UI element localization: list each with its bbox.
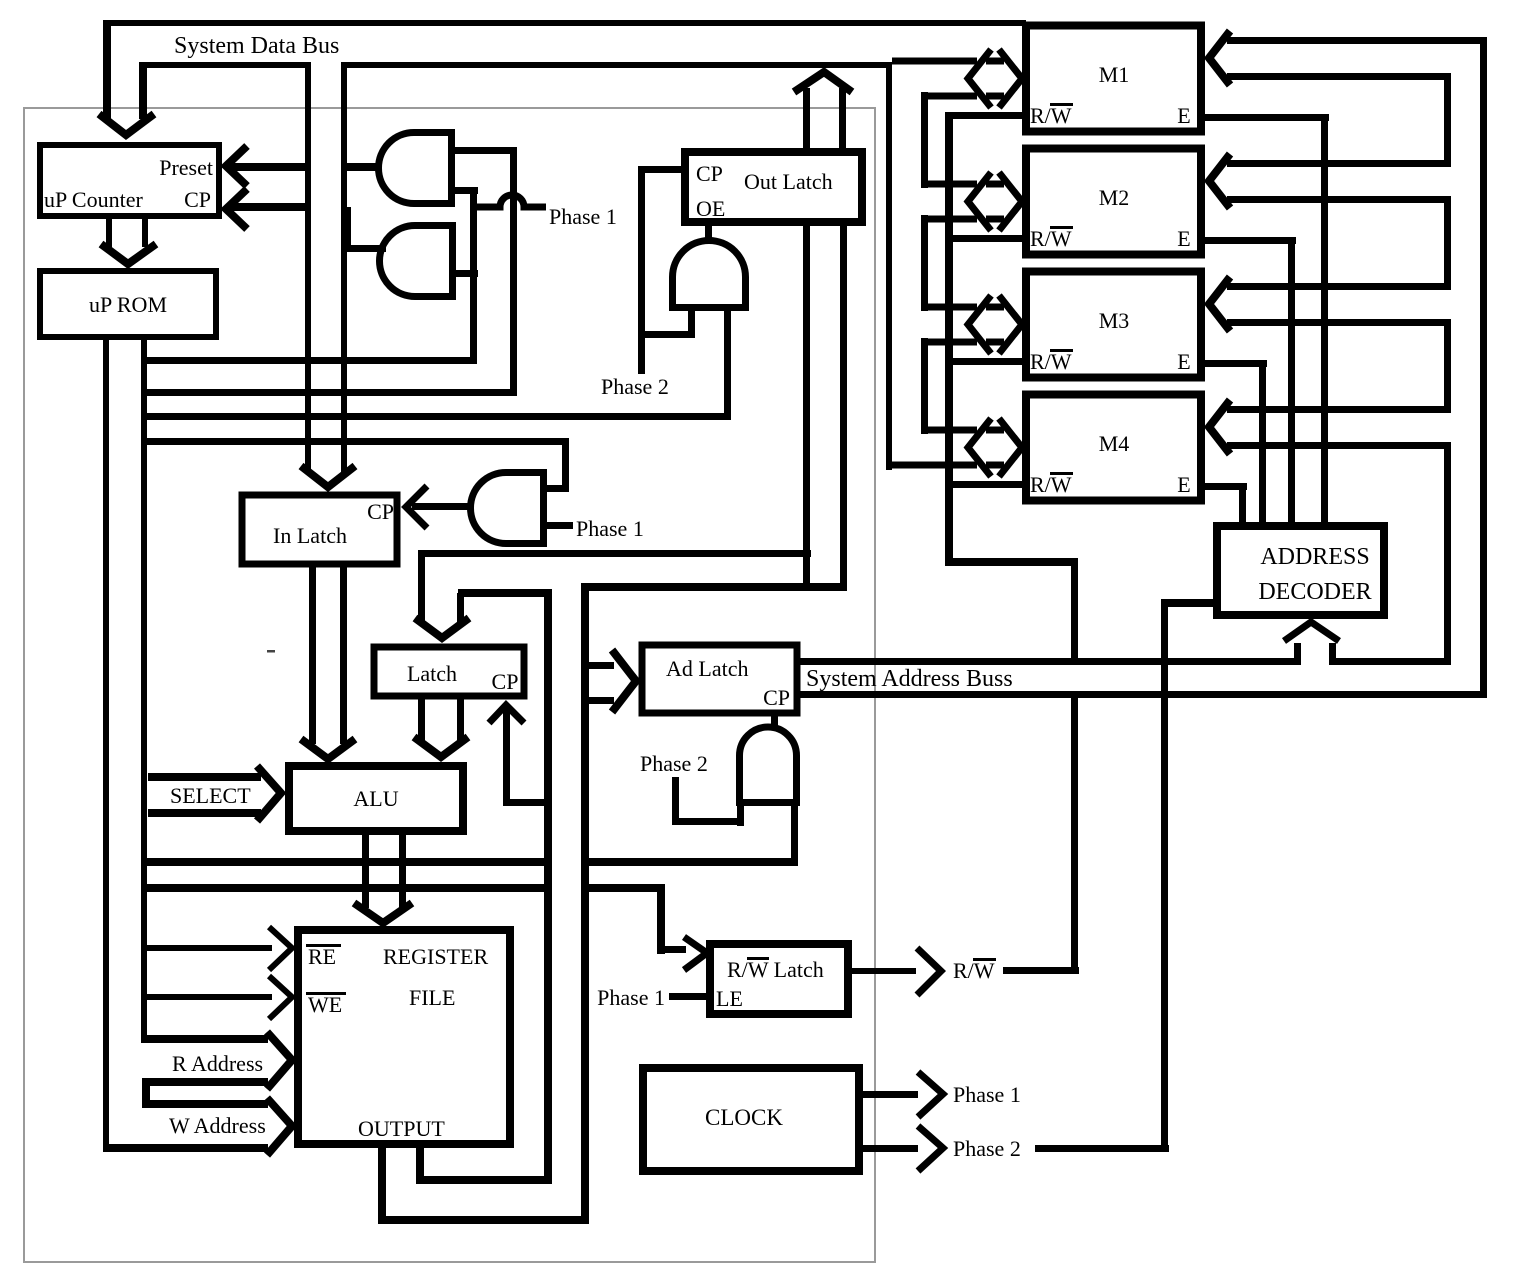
svg-text:R/W: R/W xyxy=(1030,103,1072,128)
svg-text:E: E xyxy=(1177,103,1190,128)
svg-text:OE: OE xyxy=(696,196,725,221)
svg-text:M1: M1 xyxy=(1099,62,1130,87)
svg-text:R/W: R/W xyxy=(1030,472,1072,497)
svg-text:Latch: Latch xyxy=(407,661,457,686)
svg-text:DECODER: DECODER xyxy=(1258,579,1371,605)
svg-text:CP: CP xyxy=(763,685,790,710)
svg-text:LE: LE xyxy=(716,986,743,1011)
svg-text:Ad Latch: Ad Latch xyxy=(666,656,748,681)
svg-text:CP: CP xyxy=(492,669,519,694)
svg-text:R/W: R/W xyxy=(1030,349,1072,374)
svg-text:Phase 1: Phase 1 xyxy=(549,204,617,229)
svg-text:CLOCK: CLOCK xyxy=(705,1105,783,1130)
svg-text:R/W: R/W xyxy=(1030,226,1072,251)
svg-text:W Address: W Address xyxy=(169,1113,266,1138)
svg-text:M4: M4 xyxy=(1099,431,1130,456)
svg-text:ADDRESS: ADDRESS xyxy=(1260,544,1369,570)
svg-text:ALU: ALU xyxy=(353,786,398,811)
svg-text:Phase 1: Phase 1 xyxy=(576,516,644,541)
svg-text:CP: CP xyxy=(184,187,211,212)
svg-text:OUTPUT: OUTPUT xyxy=(358,1116,445,1141)
svg-text:uP ROM: uP ROM xyxy=(89,292,167,317)
svg-text:E: E xyxy=(1177,349,1190,374)
svg-text:Phase 2: Phase 2 xyxy=(953,1136,1021,1161)
svg-text:E: E xyxy=(1177,472,1190,497)
svg-text:CP: CP xyxy=(367,499,394,524)
svg-text:R/W Latch: R/W Latch xyxy=(727,957,824,982)
svg-text:Phase 2: Phase 2 xyxy=(640,751,708,776)
svg-text:M3: M3 xyxy=(1099,308,1130,333)
svg-text:RE: RE xyxy=(308,944,336,969)
svg-text:In Latch: In Latch xyxy=(273,523,347,548)
svg-text:WE: WE xyxy=(308,992,342,1017)
svg-text:SELECT: SELECT xyxy=(170,783,251,808)
svg-text:Phase 2: Phase 2 xyxy=(601,374,669,399)
svg-text:uP Counter: uP Counter xyxy=(44,187,143,212)
svg-text:REGISTER: REGISTER xyxy=(383,944,488,969)
svg-text:R/W: R/W xyxy=(953,958,995,983)
svg-text:Phase 1: Phase 1 xyxy=(597,985,665,1010)
svg-text:R Address: R Address xyxy=(172,1051,263,1076)
svg-text:CP: CP xyxy=(696,161,723,186)
svg-text:M2: M2 xyxy=(1099,185,1130,210)
svg-text:E: E xyxy=(1177,226,1190,251)
svg-text:System Data Bus: System Data Bus xyxy=(174,33,339,59)
svg-text:Phase 1: Phase 1 xyxy=(953,1082,1021,1107)
svg-text:Preset: Preset xyxy=(159,155,213,180)
svg-text:System Address Buss: System Address Buss xyxy=(806,666,1013,692)
svg-text:Out Latch: Out Latch xyxy=(744,169,833,194)
svg-text:FILE: FILE xyxy=(409,985,455,1010)
